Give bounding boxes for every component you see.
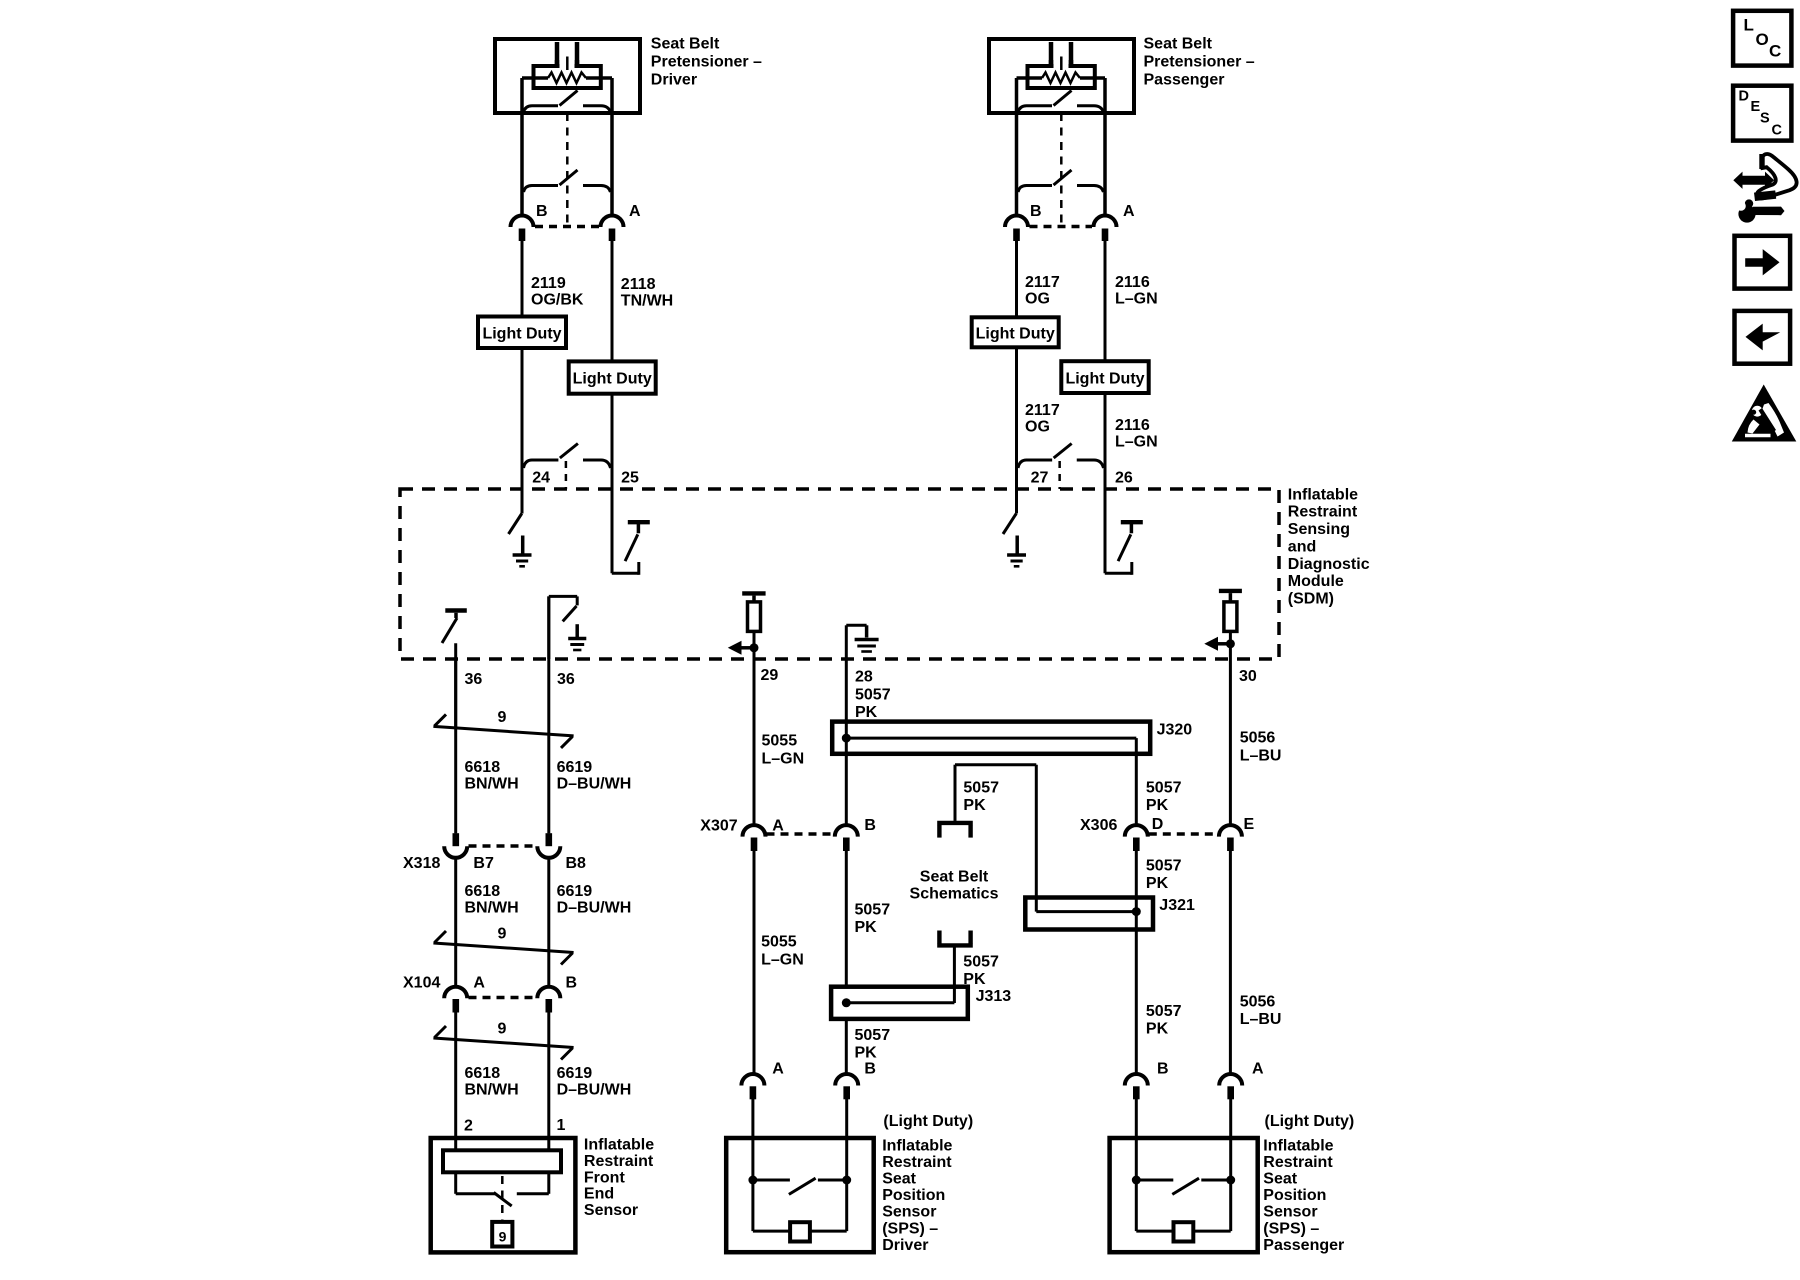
SDM internal switch blade at x=1016.5	[1003, 514, 1016, 535]
wire 6618 BN/WH segment 3	[454, 1013, 457, 1151]
pretensioner driver squib resistor	[522, 73, 612, 84]
label circuit 5057 PK (below J321)	[1146, 1003, 1182, 1038]
label circuit 6619 D-BU/WH (1)	[557, 759, 632, 792]
pretensioner passenger shorting bar switch	[1018, 91, 1104, 113]
Light Duty box passenger right	[1061, 361, 1148, 393]
splice J320 box	[832, 722, 1150, 754]
pretensioner passenger left lead wire	[1015, 78, 1019, 216]
svg-text:L–BU: L–BU	[1240, 1011, 1282, 1028]
svg-text:Diagnostic: Diagnostic	[1288, 556, 1370, 573]
svg-text:30: 30	[1239, 668, 1257, 685]
svg-text:Restraint: Restraint	[584, 1153, 654, 1170]
svg-text:Inflatable: Inflatable	[1288, 486, 1358, 503]
svg-text:2117: 2117	[1025, 274, 1060, 291]
svg-text:Position: Position	[1263, 1187, 1326, 1204]
front end sensor element bar	[443, 1150, 561, 1172]
svg-text:Sensor: Sensor	[1263, 1204, 1317, 1221]
svg-text:X104: X104	[403, 975, 440, 992]
svg-text:D–BU/WH: D–BU/WH	[557, 775, 632, 792]
splice J313 bus	[842, 998, 955, 1007]
SPS driver transducer branch	[753, 1180, 847, 1231]
connector X318 dashed line	[469, 844, 537, 848]
svg-text:9: 9	[498, 709, 507, 726]
label circuit 2116 L-GN lower	[1115, 417, 1158, 450]
connector X306 pin E	[1219, 825, 1242, 851]
svg-text:9: 9	[499, 1229, 507, 1245]
SDM shorting bar switch pins 27/26	[1018, 444, 1104, 490]
svg-text:A: A	[629, 203, 641, 220]
svg-text:Restraint: Restraint	[882, 1154, 952, 1171]
svg-text:2116: 2116	[1115, 417, 1150, 434]
svg-text:B: B	[864, 1061, 876, 1078]
wire 6619 D-BU/WH segment 2	[547, 858, 550, 988]
SPS driver transducer square	[790, 1222, 810, 1241]
svg-text:2116: 2116	[1115, 274, 1150, 291]
SPS passenger transducer branch	[1136, 1180, 1230, 1231]
svg-text:2117: 2117	[1025, 402, 1060, 419]
svg-text:J320: J320	[1157, 722, 1193, 739]
svg-text:Restraint: Restraint	[1288, 504, 1358, 521]
icon repair information hand	[1733, 154, 1796, 201]
svg-text:J313: J313	[976, 988, 1012, 1005]
label circuit 5055 L-GN (2)	[761, 934, 804, 969]
connector X307 dashed line	[767, 832, 835, 836]
icon forward arrow box	[1735, 236, 1791, 289]
svg-text:5057: 5057	[1146, 779, 1182, 796]
svg-text:1: 1	[557, 1117, 566, 1134]
pretensioner driver title	[651, 36, 762, 89]
svg-text:28: 28	[855, 669, 873, 686]
wire 6618 BN/WH segment 2	[454, 858, 457, 988]
svg-text:D–BU/WH: D–BU/WH	[557, 1081, 632, 1098]
svg-text:B: B	[1157, 1061, 1169, 1078]
connector X104 pin B	[537, 987, 560, 1013]
svg-text:E: E	[1751, 99, 1761, 115]
svg-text:X318: X318	[403, 855, 440, 872]
SPS driver switch	[748, 1176, 851, 1195]
svg-text:Inflatable: Inflatable	[882, 1137, 952, 1154]
svg-text:6618: 6618	[465, 883, 501, 900]
SDM module title	[1288, 486, 1370, 607]
svg-text:PK: PK	[1146, 797, 1169, 814]
icon back arrow box	[1735, 311, 1791, 364]
label circuit 6618 BN/WH (2)	[465, 883, 519, 916]
SPS driver left lead	[751, 1099, 754, 1180]
SPS passenger left lead	[1135, 1099, 1138, 1180]
svg-text:5055: 5055	[762, 733, 798, 750]
SDM internal resistor pin 29	[742, 593, 765, 659]
wire 5057 PK J313 to SPS driver B	[845, 1019, 848, 1075]
wire 2116 L-GN passenger right	[1104, 241, 1107, 573]
svg-text:6619: 6619	[557, 759, 593, 776]
wire 5055 L-GN pin 29 to X307 A	[753, 659, 756, 826]
pretensioner driver squib housing	[534, 60, 601, 88]
SPS driver connector pin A	[741, 1074, 764, 1099]
svg-text:D–BU/WH: D–BU/WH	[557, 899, 632, 916]
off-page connector fork upper	[937, 823, 973, 838]
wire SDM pin 36 left	[454, 643, 457, 727]
pretensioner driver left lead wire	[520, 78, 524, 216]
connector X104 pin A	[444, 987, 467, 1013]
icon DESC box	[1733, 86, 1791, 141]
pretensioner passenger connector terminal B arc	[1005, 216, 1028, 228]
svg-text:A: A	[772, 818, 784, 835]
svg-text:5057: 5057	[1146, 858, 1182, 875]
label circuit 5057 PK (below J313)	[855, 1027, 891, 1062]
SDM internal hook pin 36 right	[549, 596, 577, 659]
label circuit 6619 D-BU/WH (3)	[557, 1065, 632, 1098]
svg-text:Pretensioner –: Pretensioner –	[1144, 54, 1255, 71]
svg-text:B7: B7	[473, 855, 494, 872]
svg-text:L–BU: L–BU	[1240, 747, 1282, 764]
svg-text:2: 2	[464, 1118, 473, 1135]
front end sensor code 9 box	[492, 1222, 512, 1247]
svg-text:L: L	[1744, 16, 1754, 35]
svg-text:6619: 6619	[557, 883, 593, 900]
svg-text:J321: J321	[1159, 897, 1195, 914]
svg-text:Seat: Seat	[1263, 1171, 1297, 1188]
svg-text:OG: OG	[1025, 418, 1050, 435]
svg-text:5056: 5056	[1240, 730, 1276, 747]
pretensioner driver squib terminals	[557, 42, 577, 66]
seat position sensor passenger box	[1110, 1138, 1258, 1252]
Light Duty box driver right	[569, 361, 656, 393]
label circuit 5057 PK (above J321)	[1146, 858, 1182, 893]
label circuit 2118 TN/WH	[621, 276, 673, 309]
svg-text:5057: 5057	[1146, 1003, 1182, 1020]
wire 5055 L-GN X307 A to SPS driver	[753, 851, 756, 1075]
wire 5057 PK X307 B to J313	[845, 851, 848, 987]
SDM shorting bar switch pins 24/25	[524, 444, 611, 490]
pretensioner passenger right lead wire	[1103, 78, 1107, 216]
svg-text:5057: 5057	[855, 902, 891, 919]
svg-text:B8: B8	[566, 855, 587, 872]
connector X307 pin A	[743, 825, 766, 851]
SDM internal resistor pin 30	[1219, 591, 1242, 659]
svg-text:TN/WH: TN/WH	[621, 292, 673, 309]
svg-text:and: and	[1288, 538, 1316, 555]
svg-text:6619: 6619	[557, 1065, 593, 1082]
svg-text:A: A	[1252, 1061, 1264, 1078]
svg-text:PK: PK	[855, 919, 878, 936]
svg-text:Module: Module	[1288, 573, 1344, 590]
svg-text:B: B	[864, 817, 876, 834]
pretensioner passenger connector terminal A arc	[1094, 216, 1117, 228]
svg-text:D: D	[1152, 816, 1164, 833]
off-page connector fork lower	[937, 931, 973, 946]
label circuit 5057 PK (J313 drop)	[963, 954, 999, 989]
label circuit 2119 OG/BK	[531, 275, 584, 308]
svg-text:6618: 6618	[465, 759, 501, 776]
svg-text:BN/WH: BN/WH	[465, 899, 519, 916]
harness loop symbol 9 at y=1038.0	[433, 1026, 573, 1060]
svg-text:5057: 5057	[963, 780, 999, 797]
Light Duty box driver left	[478, 317, 566, 349]
wire 2119 OG/BK driver left	[521, 241, 524, 514]
svg-text:25: 25	[621, 469, 639, 486]
splice J321 box	[1025, 898, 1153, 930]
pretensioner passenger squib resistor	[1017, 73, 1106, 84]
pretensioner passenger connector shorting bar switch	[1018, 170, 1104, 192]
connector X318 pin B7	[444, 833, 467, 858]
svg-text:Seat Belt: Seat Belt	[1144, 36, 1213, 53]
pretensioner driver pin B stub	[519, 229, 526, 242]
svg-text:26: 26	[1115, 469, 1133, 486]
svg-text:End: End	[584, 1186, 614, 1203]
svg-text:24: 24	[532, 469, 550, 486]
svg-text:L–GN: L–GN	[761, 951, 804, 968]
SPS passenger switch	[1132, 1176, 1235, 1195]
svg-text:Driver: Driver	[882, 1237, 928, 1254]
seat belt pretensioner driver outline box	[495, 39, 640, 113]
icon repair wrench	[1736, 199, 1784, 222]
pretensioner driver igniter dash	[566, 57, 569, 71]
svg-text:OG/BK: OG/BK	[531, 291, 584, 308]
svg-text:(Light Duty): (Light Duty)	[883, 1113, 973, 1130]
svg-text:(SPS) –: (SPS) –	[1263, 1220, 1319, 1237]
SPS driver title	[882, 1137, 952, 1254]
connector X306 dashed line	[1149, 832, 1218, 836]
svg-text:36: 36	[557, 671, 575, 688]
front end sensor internal circuit	[456, 1172, 549, 1194]
svg-text:C: C	[1772, 123, 1783, 139]
SDM internal contact hook at x=611.8	[612, 562, 639, 575]
SDM internal ground pin 28	[846, 625, 878, 659]
seat belt schematics note	[910, 868, 999, 902]
svg-text:Passenger: Passenger	[1144, 72, 1225, 89]
svg-text:5057: 5057	[855, 1027, 891, 1044]
svg-text:Sensor: Sensor	[882, 1204, 936, 1221]
SPS passenger connector pin B	[1125, 1074, 1148, 1099]
svg-text:Sensor: Sensor	[584, 1202, 638, 1219]
pretensioner passenger squib housing	[1028, 60, 1095, 88]
svg-text:29: 29	[761, 667, 779, 684]
wire 2117 OG passenger left	[1015, 241, 1018, 514]
SDM internal arrow pin 29	[728, 641, 759, 655]
svg-text:Driver: Driver	[651, 72, 697, 89]
svg-text:Light Duty: Light Duty	[976, 325, 1055, 342]
svg-text:L–GN: L–GN	[1115, 433, 1158, 450]
pretensioner driver connector terminal A arc	[601, 216, 624, 228]
label circuit 2117 OG lower	[1025, 402, 1060, 435]
label circuit 6618 BN/WH (1)	[465, 759, 519, 792]
connector X104 dashed line	[469, 996, 537, 1000]
wire 5057 PK J320 to X306 D	[1135, 754, 1138, 826]
wire 6618 BN/WH segment 1	[454, 659, 457, 833]
svg-text:Restraint: Restraint	[1263, 1154, 1333, 1171]
pretensioner driver connector terminal B arc	[511, 216, 534, 228]
label circuit 5055 L-GN (1)	[762, 733, 805, 768]
svg-text:D: D	[1739, 89, 1749, 105]
svg-text:L–GN: L–GN	[1115, 290, 1158, 307]
svg-text:27: 27	[1031, 469, 1049, 486]
svg-text:(SPS) –: (SPS) –	[882, 1220, 938, 1237]
svg-text:Front: Front	[584, 1169, 626, 1186]
label circuit 5056 L-BU (lower)	[1240, 994, 1282, 1029]
svg-text:OG: OG	[1025, 290, 1050, 307]
svg-text:BN/WH: BN/WH	[465, 1081, 519, 1098]
pretensioner passenger title	[1144, 36, 1255, 89]
splice J321 bus	[1036, 907, 1141, 916]
svg-text:C: C	[1769, 42, 1781, 61]
svg-text:Pretensioner –: Pretensioner –	[651, 54, 762, 71]
svg-text:PK: PK	[855, 704, 878, 721]
svg-text:S: S	[1760, 110, 1770, 126]
seat position sensor driver box	[726, 1138, 874, 1252]
svg-text:Schematics: Schematics	[910, 886, 999, 903]
Light Duty box passenger left	[972, 317, 1059, 347]
svg-text:L–GN: L–GN	[762, 750, 805, 767]
pretensioner passenger pin A stub	[1102, 229, 1109, 242]
SPS passenger connector pin A	[1219, 1074, 1242, 1099]
svg-text:Light Duty: Light Duty	[482, 326, 561, 343]
SPS driver connector pin B	[835, 1074, 858, 1099]
wire 5057 PK to seat belt schematics	[955, 765, 1036, 821]
svg-text:A: A	[772, 1061, 784, 1078]
pretensioner passenger igniter dash	[1060, 57, 1063, 71]
svg-text:A: A	[1123, 203, 1135, 220]
front end sensor dashed link	[501, 1176, 504, 1221]
svg-text:Position: Position	[882, 1187, 945, 1204]
front end sensor switch blade	[494, 1193, 512, 1207]
svg-text:A: A	[473, 975, 485, 992]
svg-text:Sensing: Sensing	[1288, 521, 1350, 538]
svg-text:Seat Belt: Seat Belt	[651, 36, 720, 53]
SDM internal switch contact at x=1104.8	[1118, 522, 1143, 561]
svg-text:Inflatable: Inflatable	[584, 1137, 654, 1154]
pretensioner driver shorting bar dashed link	[566, 113, 569, 226]
svg-text:6618: 6618	[465, 1065, 501, 1082]
SDM internal switch contact at x=611.8	[625, 522, 650, 561]
label circuit 6619 D-BU/WH (2)	[557, 883, 632, 916]
pretensioner driver right lead wire	[610, 78, 614, 216]
wire 2118 TN/WH driver right	[611, 241, 614, 573]
pretensioner driver shorting bar switch	[524, 91, 611, 113]
svg-text:PK: PK	[963, 797, 986, 814]
SPS driver right lead	[845, 1099, 848, 1180]
svg-text:2118: 2118	[621, 276, 656, 293]
wire 5056 L-BU X306 E to SPS passenger A	[1229, 851, 1232, 1075]
svg-text:PK: PK	[1146, 1021, 1169, 1038]
pretensioner passenger pin B stub	[1013, 229, 1020, 242]
svg-text:9: 9	[498, 1021, 507, 1038]
connector X307 pin B	[835, 825, 858, 851]
svg-text:Light Duty: Light Duty	[1065, 370, 1144, 387]
SDM module dashed box	[400, 489, 1279, 659]
svg-text:BN/WH: BN/WH	[465, 775, 519, 792]
label circuit 6618 BN/WH (3)	[465, 1065, 519, 1098]
wire SDM pin 36 right	[547, 596, 550, 833]
SPS passenger transducer square	[1174, 1222, 1194, 1241]
svg-text:Seat Belt: Seat Belt	[920, 868, 989, 885]
label circuit 5057 PK (D upper)	[1146, 779, 1182, 814]
SDM internal ground pin 36 right	[568, 624, 586, 650]
svg-text:Passenger: Passenger	[1263, 1237, 1344, 1254]
label circuit 5057 PK (fork)	[963, 780, 999, 815]
wire 5057 PK X306 D through J321 to SPS passenger B	[1135, 851, 1138, 1075]
splice J320 bus	[842, 734, 1137, 754]
label circuit 2117 OG upper	[1025, 274, 1060, 307]
wire 6619 D-BU/WH segment 3	[547, 1013, 550, 1151]
svg-text:(SDM): (SDM)	[1288, 591, 1334, 608]
svg-text:X306: X306	[1080, 817, 1117, 834]
svg-text:5057: 5057	[855, 687, 891, 704]
wire 5056 L-BU pin 30 to X306 E	[1229, 659, 1232, 826]
svg-text:Inflatable: Inflatable	[1263, 1137, 1333, 1154]
label circuit 5057 PK (above J313)	[855, 902, 891, 937]
wire 5057 PK pin 28 to X307 B	[845, 659, 848, 826]
seat belt pretensioner passenger outline box	[989, 39, 1134, 113]
svg-text:Seat: Seat	[882, 1171, 916, 1188]
splice J313 box	[831, 987, 968, 1019]
pretensioner passenger shorting bar dashed link	[1060, 113, 1063, 226]
svg-text:5056: 5056	[1240, 994, 1276, 1011]
wire 5057 PK fork to J313	[953, 948, 956, 1004]
pretensioner driver connector shorting bar switch	[524, 170, 611, 192]
wire 5057 PK J320 bus to J321	[1035, 765, 1038, 912]
svg-text:B: B	[566, 975, 578, 992]
harness loop symbol 9 at y=943.0	[433, 931, 573, 965]
svg-text:B: B	[536, 203, 548, 220]
SDM pin 28 label	[855, 669, 891, 722]
SDM internal ground at x=1016.5	[1007, 536, 1026, 567]
svg-text:Light Duty: Light Duty	[573, 371, 652, 388]
pretensioner passenger squib terminals	[1051, 42, 1071, 66]
svg-text:(Light Duty): (Light Duty)	[1265, 1113, 1355, 1130]
icon airbag caution triangle	[1732, 385, 1797, 442]
SDM internal switch blade at x=522	[509, 514, 522, 535]
svg-text:O: O	[1756, 30, 1769, 49]
pretensioner driver connector dashed line	[535, 225, 599, 229]
svg-text:5055: 5055	[761, 934, 797, 951]
label circuit 2116 L-GN upper	[1115, 274, 1158, 307]
svg-text:36: 36	[465, 671, 483, 688]
icon LOC box	[1733, 11, 1791, 66]
svg-text:B: B	[1030, 203, 1042, 220]
SPS passenger right lead	[1229, 1099, 1232, 1180]
svg-text:PK: PK	[1146, 875, 1169, 892]
SPS passenger title	[1263, 1137, 1344, 1254]
SDM internal switch blade pin 36 right	[563, 606, 577, 621]
svg-text:9: 9	[498, 926, 507, 943]
SDM internal arrow pin 30	[1204, 637, 1235, 651]
pretensioner passenger connector dashed line	[1030, 225, 1093, 229]
label circuit 5056 L-BU (upper)	[1240, 730, 1282, 765]
connector X318 pin B8	[537, 833, 560, 858]
inflatable restraint front end sensor box	[431, 1138, 576, 1252]
svg-text:PK: PK	[855, 1045, 878, 1062]
svg-text:2119: 2119	[531, 275, 566, 292]
svg-text:5057: 5057	[963, 954, 999, 971]
harness loop symbol 9 at y=726.4	[433, 714, 573, 748]
svg-text:E: E	[1244, 816, 1255, 833]
connector X306 pin D	[1125, 825, 1148, 851]
SDM internal ground at x=522	[513, 536, 532, 567]
SDM internal contact hook at x=1104.8	[1105, 562, 1132, 575]
SDM internal contact pin 36 left	[442, 611, 467, 644]
front end sensor title	[584, 1137, 654, 1219]
pretensioner driver pin A stub	[609, 229, 616, 242]
svg-text:X307: X307	[700, 818, 737, 835]
